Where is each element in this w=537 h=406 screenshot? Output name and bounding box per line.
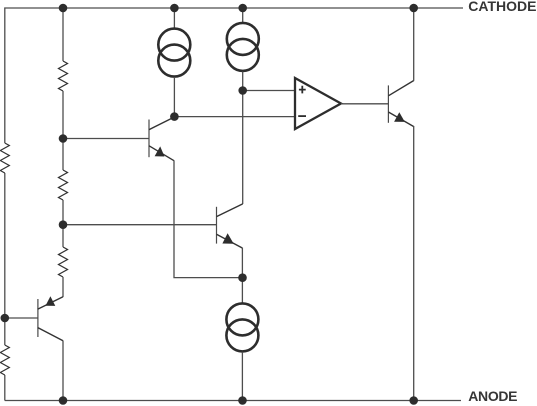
op-amp U1 [295, 78, 341, 129]
node dot anode col2 [59, 396, 68, 405]
transistor Q3 emitter arrow (PNP) [46, 296, 56, 306]
resistor R3 (column2 top) [59, 61, 68, 91]
wire left rail bottom [4, 375, 6, 401]
wire CS2 top stub [242, 8, 244, 23]
transistor Q2 emitter diagonal [217, 234, 243, 248]
wire Q3 collector down [62, 341, 64, 401]
node dot Q1 collector [170, 112, 179, 121]
wire column2 R4 to node [62, 200, 64, 247]
wire column2 R5 to Q3 emitter [62, 277, 64, 297]
wire CS1 bottom to node [173, 77, 175, 117]
node dot anode CS3 [238, 396, 247, 405]
current source I1 circle A [158, 29, 190, 61]
transistor Q1 emitter diagonal [149, 146, 174, 161]
wire column2 top [62, 8, 64, 61]
transistor Q1 collector diagonal [149, 117, 175, 130]
node dot col2 Q1 base [59, 134, 68, 143]
wire op-amp output [341, 103, 388, 105]
wire base Q2 [63, 224, 217, 226]
wire CS1 top stub [173, 8, 175, 28]
op-amp plus sign [299, 86, 306, 94]
node dot CS3 top [238, 273, 247, 282]
wire minus input [174, 116, 295, 118]
wire Q2 emitter down [241, 248, 243, 278]
transistor Q3 base bar [37, 299, 39, 337]
svg-text:ANODE: ANODE [468, 388, 517, 404]
wire Q1 emitter down [174, 161, 243, 278]
wire plus input [243, 90, 295, 92]
wire CS3 bottom to anode [241, 352, 243, 401]
wire Q2 collector up [242, 91, 244, 205]
transistor Q2 base bar [216, 207, 218, 244]
transistor Q1 emitter arrow [155, 146, 165, 156]
anode rail [5, 400, 461, 402]
transistor Q4 emitter diagonal [388, 112, 413, 127]
wire left rail mid [4, 173, 6, 345]
transistor Q4 collector diagonal [388, 81, 413, 96]
transistor Q3 emitter diagonal [38, 297, 63, 310]
node dot top rail CS1 [170, 4, 179, 13]
node dot col2 Q2 base [59, 220, 68, 229]
node dot top rail col2 [59, 4, 68, 13]
op-amp minus sign [298, 115, 306, 117]
transistor Q4 base bar [387, 85, 389, 122]
node dot anode Q4 [409, 396, 418, 405]
wire column2 R3 to node [62, 91, 64, 139]
transistor Q2 emitter arrow [222, 233, 233, 244]
transistor Q2 collector diagonal [217, 204, 243, 217]
current source I2 circle B [227, 39, 259, 71]
wire base Q1 [63, 138, 149, 140]
current source I2 circle A [227, 23, 259, 55]
node dot plus input [238, 86, 247, 95]
node dot top rail Q4 [409, 4, 418, 13]
node dot left rail Q3 base [1, 314, 10, 323]
transistor Q4 emitter arrow [394, 112, 405, 122]
cathode rail [5, 8, 463, 143]
node dot top rail CS2 [238, 4, 247, 13]
wire base Q3 [5, 317, 38, 319]
wire CS2 bottom to node [242, 72, 244, 91]
resistor R1 (left rail upper) [0, 143, 9, 173]
transistor Q1 base bar [148, 120, 150, 158]
wire column2 node to R4 [62, 139, 64, 171]
transistor Q3 collector diagonal [38, 328, 63, 341]
current source I1 circle B [158, 45, 190, 77]
wire Q4 emitter to anode [413, 126, 415, 401]
wire Q4 collector to cathode [413, 8, 415, 81]
svg-text:CATHODE: CATHODE [468, 0, 536, 14]
wire CS3 top stub [241, 278, 243, 303]
resistor R4 (column2 middle) [59, 170, 68, 200]
resistor R5 (column2 lower) [59, 247, 68, 277]
current source I3 circle B [226, 319, 258, 351]
current source I3 circle A [226, 303, 258, 335]
resistor R2 (left rail lower) [0, 345, 9, 375]
